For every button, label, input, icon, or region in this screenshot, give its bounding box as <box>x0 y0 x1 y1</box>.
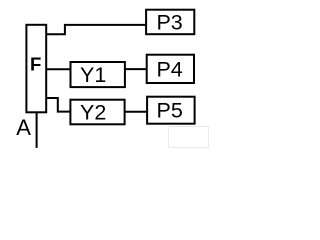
svg-text:Y2: Y2 <box>80 101 106 125</box>
svg-text:P4: P4 <box>156 58 182 82</box>
svg-text:P5: P5 <box>157 98 183 122</box>
svg-text:Y1: Y1 <box>80 63 106 87</box>
svg-text:P3: P3 <box>156 11 182 35</box>
svg-text:F: F <box>30 53 41 74</box>
svg-text:A: A <box>16 115 31 140</box>
